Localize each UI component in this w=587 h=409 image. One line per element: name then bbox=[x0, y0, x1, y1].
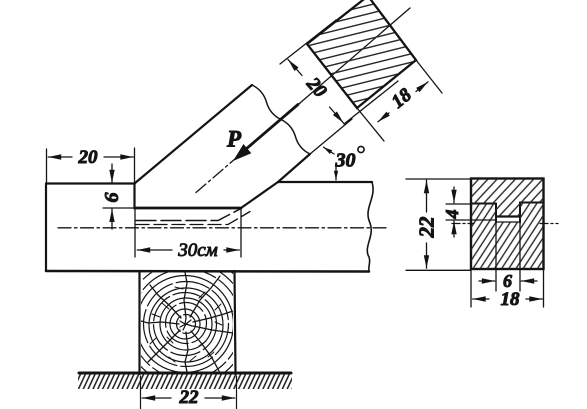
svg-text:P: P bbox=[226, 127, 242, 152]
strut axis centerline bbox=[196, 103, 300, 193]
22 extension line right bbox=[236, 376, 238, 409]
dimension 20 (left) bbox=[48, 156, 72, 158]
tenon bottom bbox=[496, 215, 520, 217]
svg-text:18: 18 bbox=[501, 289, 521, 310]
notch front face bbox=[133, 184, 135, 209]
dimension 30cm bbox=[137, 249, 172, 251]
svg-text:22: 22 bbox=[179, 387, 200, 408]
strut section hatch (upper) bbox=[471, 179, 544, 217]
dimension 20 (section) bbox=[288, 60, 302, 76]
growth ring cracks bbox=[141, 272, 233, 372]
angle arrow to beam top bbox=[335, 165, 337, 180]
beam section hatch (lower) bbox=[471, 203, 544, 270]
strut top edge bbox=[135, 85, 253, 184]
svg-text:30см: 30см bbox=[177, 240, 218, 261]
dimension 18 (section) bbox=[378, 113, 389, 122]
dimension 6 (section) bbox=[479, 280, 495, 282]
svg-text:22: 22 bbox=[415, 216, 439, 239]
notch back oblique face bbox=[241, 182, 278, 208]
strut axis extension to section bbox=[300, 8, 410, 103]
dimension 22 (post width) bbox=[142, 397, 171, 399]
left 20 extension line (left) bbox=[46, 149, 48, 183]
beam left edge bbox=[45, 184, 47, 272]
section 22 extension top bbox=[406, 178, 471, 180]
tenon right side bbox=[519, 203, 521, 223]
post growth rings bbox=[117, 255, 255, 393]
section 6 extension right bbox=[519, 223, 521, 292]
svg-text:6: 6 bbox=[503, 271, 512, 291]
svg-text:4: 4 bbox=[442, 210, 462, 220]
section 18 extension line from bottom corner bbox=[357, 108, 384, 141]
beam top-right edge bbox=[278, 181, 372, 183]
section 4 extension lower bbox=[446, 219, 496, 221]
section 20 extension line lower bbox=[344, 81, 398, 124]
strut bottom edge thin extension bbox=[310, 119, 352, 154]
hidden tenon line A bbox=[136, 209, 241, 221]
section centerline left stub bbox=[452, 223, 474, 225]
beam bottom edge bbox=[46, 270, 369, 273]
section 6 extension left bbox=[495, 223, 497, 292]
dimension 6 (notch depth) bbox=[111, 164, 113, 183]
svg-text:20: 20 bbox=[78, 147, 99, 168]
left 20 extension line (right) bbox=[134, 148, 136, 183]
strut bottom edge bbox=[278, 154, 310, 182]
seat extension line left bbox=[103, 207, 134, 209]
hidden tenon line B bbox=[136, 212, 250, 225]
growth ring ticks bbox=[150, 287, 222, 362]
section view outer rectangle bbox=[471, 179, 544, 270]
force P arrow bbox=[242, 105, 298, 153]
ground line bbox=[79, 372, 291, 375]
angle arrow to strut edge bbox=[324, 147, 335, 154]
post right edge bbox=[235, 271, 236, 374]
dimension 18 (section width) bbox=[473, 298, 489, 300]
section 4 extension upper bbox=[446, 203, 471, 205]
section 18 extension left bbox=[470, 269, 472, 307]
section interface right ledge bbox=[520, 202, 544, 204]
svg-text:30: 30 bbox=[335, 150, 356, 172]
beam top-left edge bbox=[46, 182, 135, 184]
strut cross-section (hatched rhombus) bbox=[307, 0, 416, 108]
dimension 22 (section) bbox=[426, 180, 428, 212]
30cm extension line left bbox=[134, 208, 136, 257]
30cm extension line right bbox=[240, 209, 242, 257]
svg-text:18: 18 bbox=[388, 84, 416, 113]
section 18 extension line from right corner bbox=[416, 60, 442, 93]
groove bottom bbox=[496, 221, 520, 223]
dimension 4 bbox=[453, 187, 455, 203]
22 extension line left bbox=[140, 376, 142, 409]
ground hatching bbox=[78, 375, 292, 390]
section 20 extension line upper bbox=[280, 20, 336, 64]
svg-text:6: 6 bbox=[101, 193, 123, 203]
section 18 extension right bbox=[543, 269, 545, 307]
notch seat bbox=[135, 207, 242, 210]
section centerline right stub bbox=[540, 223, 558, 225]
section interface left ledge bbox=[471, 203, 496, 205]
post left edge bbox=[138, 271, 140, 374]
beam right break (wavy) bbox=[367, 182, 373, 272]
strut break (wavy) bbox=[252, 85, 310, 154]
beam centerline bbox=[58, 227, 386, 229]
section 22 extension bottom bbox=[406, 269, 471, 271]
tenon left side bbox=[495, 204, 497, 223]
